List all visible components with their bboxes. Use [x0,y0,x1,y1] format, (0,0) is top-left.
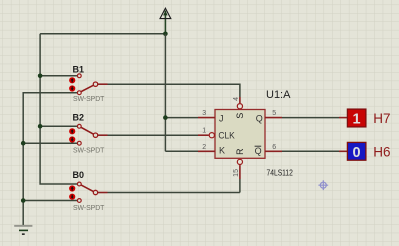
switch B0 (SW-SPDT) [69,170,107,212]
ground [14,225,32,235]
svg-text:74LS112: 74LS112 [267,167,294,177]
svg-text:U1:A: U1:A [266,89,291,101]
logic probe H6 [339,142,391,161]
svg-text:CLK: CLK [218,131,234,141]
B1 pole contact [93,82,97,86]
B0 pole contact [93,190,97,194]
H6 probe body showing 0 [347,142,366,160]
B0 lever [81,185,93,191]
wire: ground rail to B0 bottom throw [23,200,77,202]
node: junction J branch [163,115,168,120]
origin marker [318,180,328,190]
svg-text:SW-SPDT: SW-SPDT [73,96,105,103]
B0 throw-down contact [77,199,81,203]
svg-text:5: 5 [272,110,276,117]
wire: R pin down to B0 pole row [108,179,240,193]
B0 down button [69,194,75,200]
pin 2 K stub [198,150,215,152]
svg-text:2: 2 [202,144,206,151]
B2 throw-down contact [77,141,81,145]
svg-text:J: J [219,113,224,123]
svg-text:4: 4 [233,97,240,101]
svg-text:15: 15 [233,169,240,177]
pin 1 CLK stub [198,134,209,136]
B1 down button [69,85,75,91]
svg-text:3: 3 [202,110,206,117]
node: junction gnd/B2 [21,141,26,146]
wire: VCC left rail vertical + to B0 top throw [40,34,77,184]
label Qbar overline [255,145,262,147]
power symbol VCC [160,8,171,34]
switch B2 (SW-SPDT) [69,112,107,154]
pin 15 R stub [239,165,241,179]
node: power tee junction [163,32,168,37]
H7 stub [339,117,347,119]
svg-text:SW-SPDT: SW-SPDT [73,148,105,155]
wire: Q to probe H7 (green part) [282,117,339,119]
H6 stub [339,150,347,152]
svg-text:S: S [235,113,245,119]
svg-text:Q: Q [256,113,263,123]
svg-text:1: 1 [353,112,361,128]
svg-text:6: 6 [272,144,276,151]
B0 up button [69,185,75,191]
logic probe H7 [339,109,391,128]
B1 lever [81,85,93,91]
B1 throw-down contact [77,91,81,95]
svg-text:H6: H6 [373,144,390,159]
node: junction VCC/B1 [38,74,43,79]
B1 throw-up contact [77,74,81,78]
svg-text:H7: H7 [373,111,390,126]
svg-text:B1: B1 [73,64,85,74]
B2 pole stub [98,134,108,136]
pin 6 Qbar stub [265,150,282,152]
switch B1 (SW-SPDT) [69,64,107,103]
B2 lever [81,127,93,134]
pin 3 J stub [198,117,215,119]
wire: Qbar to probe H6 (green part) [282,150,339,152]
pin 4 S stub [239,97,241,103]
wire: branch to J pin [165,117,198,119]
B0 pole stub [98,192,108,194]
U1 body [215,110,265,159]
svg-text:0: 0 [353,145,361,161]
wire: to K pin [165,150,198,152]
wire: VCC rail to B2 top throw [40,125,77,127]
wire: ground rail to B2 bottom throw [23,142,77,144]
H7 probe body showing 1 [347,109,366,127]
B2 pole contact [93,133,97,137]
B1 pole stub [98,83,108,85]
S inverting bubble [237,104,242,109]
B2 throw-up contact [77,124,81,128]
wire: power top horizontal [40,33,165,35]
node: junction gnd/B0 [21,198,26,203]
svg-text:R: R [235,148,245,154]
B2 up button [69,128,75,134]
svg-text:B0: B0 [73,170,85,180]
node: junction VCC/B2 [38,124,43,129]
B0 throw-up contact [77,182,81,186]
svg-text:K: K [219,146,225,156]
svg-text:SW-SPDT: SW-SPDT [73,205,105,212]
op-amp U1:A 74LS112 JK flip-flop [198,89,293,179]
R inverting bubble [237,159,242,164]
wire: ground rail from B1 bottom throw down [23,93,77,226]
svg-text:Q: Q [255,146,262,156]
svg-text:1: 1 [202,128,206,135]
CLK inverting bubble [209,133,214,138]
B2 down button [69,136,75,142]
B1 up button [69,77,75,83]
pin 5 Q stub [265,117,282,119]
wire: B2 pole to CLK pin (green part) [108,134,199,136]
svg-text:B2: B2 [73,112,85,122]
wire: VCC mid vertical down to K row [164,34,166,152]
wire: B1 pole to S pin [108,84,240,97]
wire: VCC rail to B1 top throw [40,75,77,77]
